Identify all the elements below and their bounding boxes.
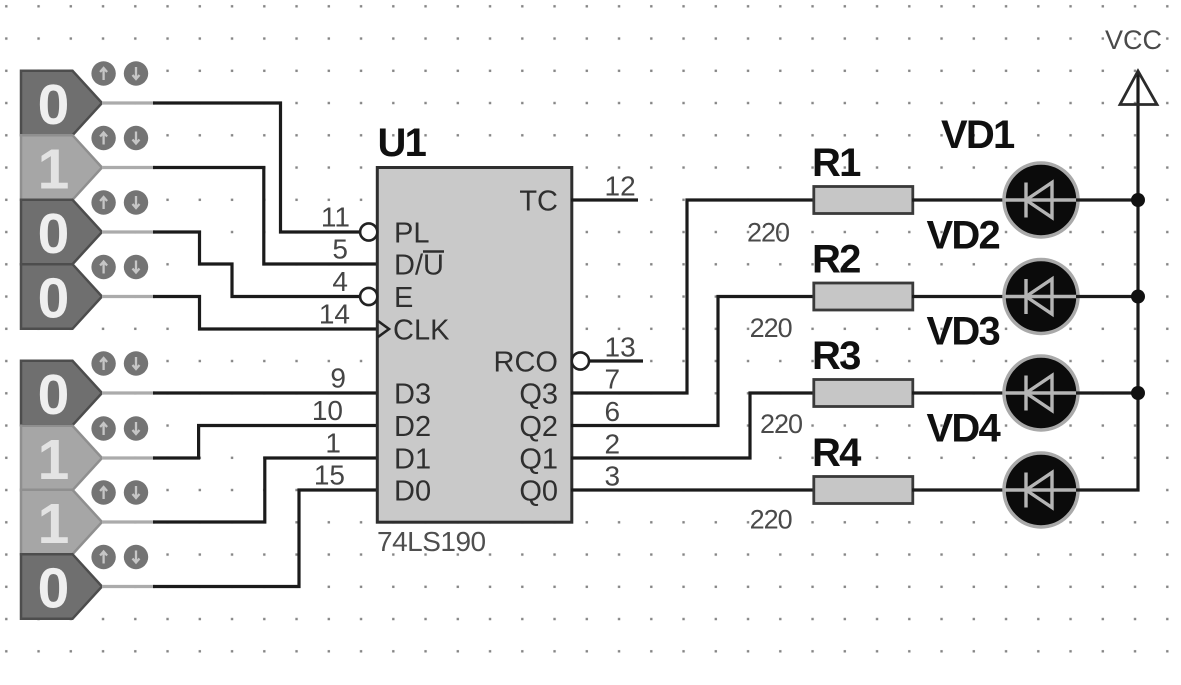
resistor R2 body [814,283,913,310]
resistor R1 body [814,187,913,214]
svg-text:VCC: VCC [1105,25,1162,55]
svg-text:CLK: CLK [393,315,450,347]
svg-text:D2: D2 [394,411,431,443]
svg-text:220: 220 [760,409,802,439]
svg-text:VD3: VD3 [927,310,1000,354]
switch S3 pin stub [102,230,155,233]
svg-text:15: 15 [314,460,345,491]
logic input switch S1 value 0 [21,61,148,137]
svg-text:0: 0 [38,557,70,621]
wire S2 to U1 D/U pin 5 [153,168,378,265]
VCC power symbol [1120,71,1157,105]
LED VD1 [1004,163,1078,237]
wire S1 to U1 PL pin 11 [153,103,360,232]
svg-text:VD4: VD4 [927,407,1002,451]
switch S7 pin stub [102,520,155,523]
svg-text:3: 3 [605,461,621,492]
IC U1 74LS190 body [377,168,572,523]
svg-text:11: 11 [321,202,350,233]
svg-text:2: 2 [605,429,621,460]
svg-text:Q0: Q0 [519,476,558,508]
wire R4 to VD4 [912,488,1006,491]
svg-text:D3: D3 [394,379,431,411]
wire S7 to U1 D1 pin 1 [153,458,378,522]
wire R1 to VD1 [912,198,1006,201]
wire Q1 to R3 [571,393,814,458]
inversion bubble RCO [572,352,589,369]
svg-text:10: 10 [312,395,343,426]
junction dot VD1 rail [1131,193,1145,207]
svg-text:Q3: Q3 [519,379,558,411]
svg-text:0: 0 [38,363,70,427]
resistor R4 body [814,477,913,504]
switch S5 pin stub [102,391,155,394]
svg-text:74LS190: 74LS190 [377,526,486,557]
wire Q0 to R4 [571,488,814,491]
svg-text:D0: D0 [394,476,431,508]
svg-text:1: 1 [38,428,70,492]
logic input switch S5 value 0 [21,351,148,427]
switch S6 pin stub [102,456,155,459]
logic input switch S2 value 1 [21,126,148,202]
svg-text:0: 0 [38,267,70,331]
svg-text:1: 1 [38,492,70,556]
logic input switch S6 value 1 [21,416,148,492]
svg-text:1: 1 [38,138,70,202]
svg-text:R4: R4 [812,431,862,475]
logic input switch S3 value 0 [21,190,148,266]
wire R2 to VD2 [912,295,1006,298]
wire S5 to U1 D3 pin 9 [153,391,378,394]
wire TC stub pin 12 [571,198,638,201]
svg-text:Q2: Q2 [519,411,558,443]
junction dot VD3 rail [1131,386,1145,400]
svg-text:13: 13 [605,332,636,363]
svg-text:220: 220 [750,505,792,535]
wire S3 to U1 E pin 4 [153,232,360,297]
logic input switch S7 value 1 [21,480,148,556]
switch S8 pin stub [102,585,155,588]
wire R3 to VD3 [912,391,1006,394]
switch S1 pin stub [102,101,155,104]
logic input switch S4 value 0 [21,255,148,331]
svg-text:VD2: VD2 [927,214,1000,258]
svg-text:PL: PL [394,218,429,250]
svg-text:R1: R1 [812,141,861,185]
svg-text:220: 220 [750,313,792,343]
switch S2 pin stub [102,166,155,169]
LED VD4 [1004,453,1078,527]
svg-text:Q1: Q1 [519,444,558,476]
svg-text:220: 220 [747,218,789,248]
wire VD3 to VCC rail [1076,391,1138,394]
svg-text:R3: R3 [812,334,860,378]
wire S8 to U1 D0 pin 15 [153,490,378,587]
svg-text:RCO: RCO [494,347,558,379]
svg-text:D/U: D/U [394,250,444,282]
wire S6 to U1 D2 pin 10 [153,426,378,459]
svg-text:R2: R2 [812,238,860,282]
junction dot VD2 rail [1131,290,1145,304]
svg-text:E: E [394,282,413,314]
clock wedge [378,321,389,337]
VCC rail wire [1076,72,1138,491]
wire Q2 to R2 [571,297,814,426]
wire VD1 to VCC rail [1076,198,1138,201]
LED VD3 [1004,356,1078,430]
svg-text:9: 9 [330,363,346,394]
svg-text:0: 0 [38,73,70,137]
svg-text:TC: TC [519,186,558,218]
svg-text:14: 14 [319,299,350,330]
svg-text:VD1: VD1 [941,113,1015,157]
wire RCO stub pin 13 [589,359,643,362]
svg-text:5: 5 [332,234,348,265]
svg-text:0: 0 [38,202,70,266]
svg-text:D1: D1 [394,444,431,476]
switch S4 pin stub [102,295,155,298]
svg-text:6: 6 [605,396,621,427]
svg-text:U1: U1 [378,121,427,165]
svg-text:1: 1 [325,428,341,459]
inversion bubble PL [360,223,377,240]
LED VD2 [1004,260,1078,334]
logic input switch S8 value 0 [21,545,148,621]
wire S4 to U1 CLK pin 14 [153,297,378,330]
wire Q3 to R1 [571,200,814,393]
svg-text:4: 4 [332,266,348,297]
svg-text:7: 7 [605,364,621,395]
inversion bubble E [360,288,377,305]
wire VD2 to VCC rail [1076,295,1138,298]
svg-text:12: 12 [605,171,636,202]
resistor R3 body [814,380,913,407]
